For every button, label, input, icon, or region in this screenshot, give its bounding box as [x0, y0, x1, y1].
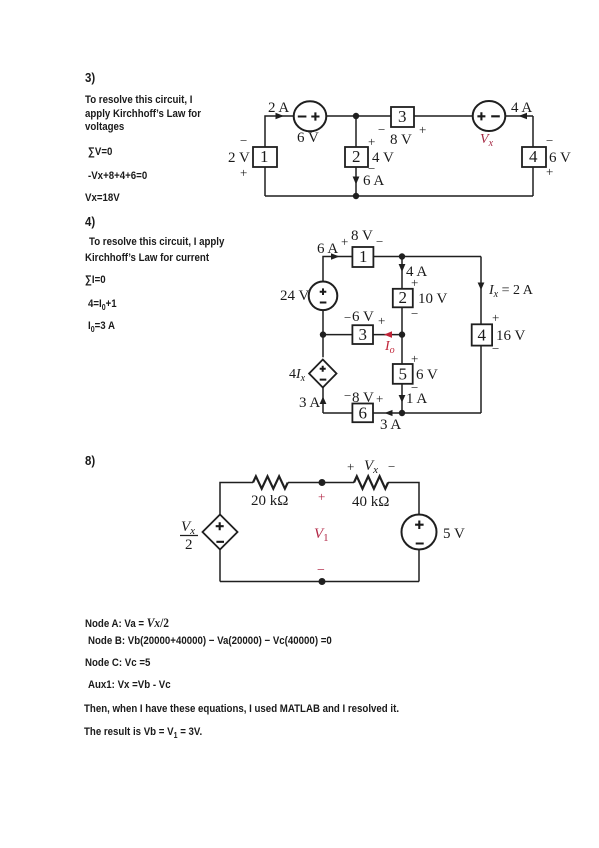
wire right branch: [532, 116, 534, 147]
node top-middle: [399, 253, 405, 259]
arrow Ix down: [478, 283, 485, 291]
red arrow Io: [384, 331, 392, 338]
resistor 40k zigzag: [354, 476, 388, 488]
node top: [319, 479, 326, 486]
box element 2: [393, 289, 413, 308]
svg-text:−: −: [388, 459, 395, 474]
svg-text:2: 2: [185, 537, 193, 553]
wire right branch upper: [480, 257, 482, 325]
wire bottom left: [323, 412, 352, 414]
wire middle mid: [401, 307, 403, 364]
wire top middle segment: [323, 115, 474, 117]
box element 5: [393, 364, 413, 384]
wire box3 left: [323, 334, 352, 336]
wire box3 right: [373, 334, 402, 336]
wire middle branch upper: [355, 116, 357, 147]
resistor 20k zigzag: [253, 476, 288, 488]
wire top right of box1: [374, 256, 482, 258]
box element 1: [352, 247, 373, 267]
arrow 6A down: [353, 177, 360, 185]
wire top left: [220, 483, 253, 515]
wire left mid: [322, 309, 324, 357]
arrow 3A left (bottom): [385, 410, 393, 416]
wire left lower: [264, 167, 266, 196]
wire right branch lower: [480, 346, 482, 413]
wire top right segment: [505, 115, 533, 117]
wire top-left segment: [265, 116, 294, 147]
svg-text:Vx: Vx: [364, 458, 378, 476]
source 6V circle: [294, 101, 327, 131]
arrow 4A left: [519, 113, 528, 119]
box element 1: [253, 147, 277, 167]
wire right lower: [418, 550, 420, 582]
node top-middle: [353, 113, 359, 119]
box element 6: [352, 404, 373, 423]
box element 4: [472, 324, 492, 345]
wire middle branch lower: [355, 167, 357, 196]
source Vx circle: [473, 101, 506, 131]
dependent source diamond 4Ix: [309, 360, 336, 388]
arrow 4A down: [399, 264, 406, 272]
arrow 6A right: [331, 253, 340, 259]
wire top-left: [323, 257, 352, 282]
svg-text:40 kΩ: 40 kΩ: [352, 494, 389, 510]
svg-text:V1: V1: [314, 526, 329, 544]
wire middle upper: [401, 257, 403, 289]
node bottom: [319, 578, 326, 585]
svg-text:+: +: [347, 459, 354, 474]
text column: [85, 70, 95, 85]
svg-text:20 kΩ: 20 kΩ: [251, 493, 288, 509]
svg-text:5 V: 5 V: [443, 526, 465, 542]
dependent source diamond Vx/2: [203, 515, 238, 550]
box element 2: [345, 147, 368, 167]
arrow 2A right: [276, 113, 285, 119]
wire bottom: [265, 195, 533, 197]
wire bottom: [220, 581, 419, 583]
wire bottom right: [373, 412, 481, 414]
arrow 1A down: [399, 395, 406, 403]
svg-text:Vx: Vx: [181, 519, 195, 537]
wire top between resistors: [288, 482, 354, 484]
svg-text:+: +: [318, 489, 325, 504]
source 24V circle: [309, 282, 338, 311]
node bottom-middle: [399, 410, 405, 416]
node left junction: [320, 331, 326, 337]
arrow 3A up (left): [320, 397, 327, 405]
box element 3: [391, 107, 414, 127]
wire top right: [388, 483, 419, 515]
node bottom-middle: [353, 193, 359, 199]
wire right lower: [532, 167, 534, 196]
box element 3: [352, 325, 373, 344]
wire left lower: [322, 387, 324, 413]
wire middle lower: [401, 384, 403, 413]
box element 4: [522, 147, 546, 167]
wire left lower: [219, 550, 221, 582]
node middle: [399, 331, 405, 337]
source 5V circle: [402, 515, 437, 550]
svg-text:−: −: [317, 563, 325, 578]
